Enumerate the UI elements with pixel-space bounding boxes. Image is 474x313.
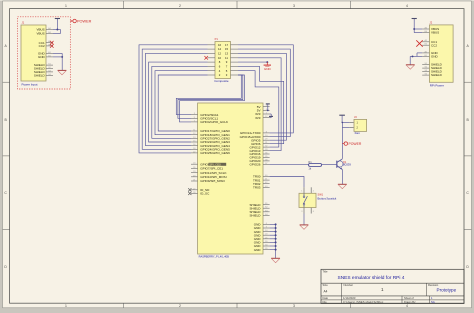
- svg-text:3: 3: [293, 304, 295, 308]
- power flag POWER left: [70, 20, 73, 22]
- connector J2 RPi Power: [429, 25, 453, 82]
- svg-text:12: 12: [218, 52, 222, 56]
- svg-text:Power Input: Power Input: [22, 83, 38, 87]
- wire fan pins: [342, 121, 349, 123]
- svg-text:POWER: POWER: [77, 20, 92, 24]
- svg-text:RPi Power: RPi Power: [430, 83, 444, 87]
- svg-text:File: File: [323, 300, 328, 304]
- svg-text:SHIELD: SHIELD: [34, 74, 46, 78]
- svg-text:Composite: Composite: [214, 79, 229, 83]
- wire: [176, 75, 241, 115]
- IC U1 left pins: [191, 114, 198, 116]
- svg-text:4: 4: [406, 304, 408, 308]
- svg-text:GPIO4/GPIO_GCLK: GPIO4/GPIO_GCLK: [200, 120, 228, 124]
- junction VBUS: [56, 29, 58, 31]
- junction 5V: [267, 110, 269, 112]
- power bar +5V RPi: [412, 18, 417, 20]
- svg-text:GND: GND: [431, 55, 439, 59]
- wire: [238, 53, 286, 140]
- svg-text:VBUS: VBUS: [431, 31, 439, 35]
- wire U1 TR00 to SW1: [270, 177, 304, 188]
- power bar +5V input: [55, 18, 60, 20]
- svg-text:P1: P1: [215, 37, 219, 41]
- wire: [238, 45, 293, 133]
- wire VBUS RPi to power bar: [414, 28, 422, 30]
- svg-text:GND: GND: [38, 55, 46, 59]
- svg-text:Prototype: Prototype: [437, 287, 457, 292]
- ground bar port GND: [266, 62, 268, 65]
- svg-text:Sheet of: Sheet of: [404, 296, 414, 300]
- power flag POWER fan: [342, 143, 344, 145]
- wire GND net of P1: [238, 61, 267, 63]
- svg-text:SG: SG: [431, 300, 435, 304]
- wire: [155, 71, 208, 135]
- svg-text:Title: Title: [323, 270, 328, 274]
- svg-text:GPIO26: GPIO26: [249, 163, 260, 167]
- junction GND bus: [275, 234, 277, 236]
- svg-text:1: 1: [381, 287, 384, 292]
- wire: [149, 62, 208, 142]
- svg-text:2: 2: [179, 4, 181, 8]
- compile mask red dashed box: [18, 17, 71, 89]
- zone ticks and labels: [123, 1, 125, 9]
- power bar 3V3: [269, 115, 273, 117]
- junction GND bus: [275, 223, 277, 225]
- svg-text:GPIO9/SPI_MISO: GPIO9/SPI_MISO: [200, 179, 225, 183]
- power bar 5V: [266, 103, 270, 105]
- wire GND RPi: [417, 52, 422, 54]
- junction GND bus: [275, 245, 277, 247]
- svg-text:Number: Number: [344, 283, 354, 287]
- wire: [152, 66, 208, 138]
- title block: [321, 269, 464, 303]
- power bar 5V fan: [339, 114, 345, 116]
- wire Q1 collector to fan: [341, 122, 343, 158]
- svg-text:SNES emulator shield for RPi 4: SNES emulator shield for RPi 4: [338, 275, 405, 281]
- junction GND P1: [266, 61, 268, 63]
- svg-text:TR03: TR03: [253, 185, 261, 189]
- wire 3V3 pair: [270, 114, 272, 118]
- wire: [145, 53, 207, 145]
- connector P1 pins: [208, 44, 216, 46]
- wire SW1 to ground: [303, 214, 305, 225]
- connector J2 pins: [422, 28, 429, 30]
- svg-text:GPIO25/GPIO_GEN6: GPIO25/GPIO_GEN6: [200, 151, 230, 155]
- no connect ID_SC: [188, 192, 191, 195]
- junction fan: [342, 122, 344, 124]
- svg-text:RASPBERRY_PI_40_40B: RASPBERRY_PI_40_40B: [199, 255, 230, 259]
- svg-text:Date: Date: [323, 296, 329, 300]
- wire GND bus: [270, 223, 276, 225]
- no connect CC1: [50, 41, 54, 45]
- svg-text:VBUS: VBUS: [37, 32, 45, 36]
- connector J1 Power Input: [21, 25, 46, 81]
- wire: [142, 49, 207, 149]
- wire: [158, 75, 207, 131]
- wire U1 GPIO26 to R1: [270, 163, 309, 165]
- wire: [238, 58, 281, 151]
- ground symbol RPi power: [406, 64, 415, 66]
- ground symbol SW1: [300, 224, 309, 226]
- svg-text:C:\Users\..\SNES shield.SchDoc: C:\Users\..\SNES shield.SchDoc: [343, 300, 384, 304]
- svg-text:1: 1: [65, 304, 67, 308]
- wire R1 to Q1 base: [322, 163, 337, 165]
- svg-text:SHIELD: SHIELD: [249, 214, 261, 218]
- resistor R1: [309, 163, 322, 166]
- ground symbol power input: [58, 69, 67, 71]
- svg-text:1: 1: [65, 4, 67, 8]
- svg-text:A4: A4: [324, 290, 328, 294]
- wire Z route GPIO6: [238, 66, 284, 143]
- svg-text:CC2: CC2: [431, 43, 437, 47]
- svg-text:Button/Joystick: Button/Joystick: [318, 196, 337, 200]
- svg-text:2: 2: [179, 304, 181, 308]
- no connect CC2: [50, 44, 54, 48]
- junction GND bus: [275, 227, 277, 229]
- ground symbol Q1: [338, 183, 347, 185]
- transistor Q1 BC639: [337, 161, 343, 167]
- svg-text:R1: R1: [308, 160, 312, 164]
- junction GND bus: [275, 241, 277, 243]
- svg-text:ID_SC: ID_SC: [200, 192, 210, 196]
- svg-text:GND: GND: [254, 248, 262, 252]
- svg-text:4: 4: [406, 4, 408, 8]
- svg-text:Drawn By:: Drawn By:: [404, 300, 416, 304]
- wire: [238, 49, 290, 137]
- svg-text:POWER: POWER: [349, 142, 362, 146]
- svg-text:3V3: 3V3: [255, 116, 261, 120]
- junction GND bus: [275, 238, 277, 240]
- svg-text:GND: GND: [264, 67, 272, 71]
- wire VBUS to power bar: [53, 29, 61, 31]
- svg-text:13: 13: [225, 52, 229, 56]
- ground symbol U1: [271, 257, 280, 259]
- svg-text:3: 3: [293, 4, 295, 8]
- connector P1 Composite header: [215, 42, 231, 79]
- switch SW1 Button/Joystick: [303, 187, 305, 193]
- wire: [178, 75, 243, 118]
- no connect ID_SD: [188, 188, 191, 191]
- wire GND pair: [53, 52, 62, 54]
- svg-text:SPI_CE0: SPI_CE0: [209, 162, 221, 166]
- wire Z route GPIO12: [238, 71, 279, 147]
- wire Q1 emitter to ground: [341, 170, 343, 185]
- junction VBUS RPi: [413, 28, 415, 30]
- IC U1 RASPBERRY_PI_40_40B: [198, 103, 263, 254]
- junction GND: [61, 56, 63, 58]
- no connect P1 pin 10: [204, 56, 208, 60]
- connector J3 Fan: [354, 119, 367, 131]
- svg-text:CC2: CC2: [39, 44, 45, 48]
- IC U1 right pins: [263, 106, 270, 108]
- no connect CC RPi: [416, 40, 422, 46]
- svg-text:SHIELD: SHIELD: [431, 73, 443, 77]
- wire 5V pair: [267, 107, 269, 111]
- svg-text:Size: Size: [323, 283, 329, 287]
- wire: [139, 45, 208, 153]
- junction GND RPi: [412, 55, 414, 57]
- junction GND bus: [275, 249, 277, 251]
- net label SPI_CE0 highlight: [209, 163, 227, 166]
- junction GND bus: [275, 231, 277, 233]
- wire: [180, 75, 245, 122]
- svg-text:BC639: BC639: [343, 163, 351, 167]
- connector J1 pins: [46, 29, 53, 31]
- svg-text:Fan: Fan: [355, 131, 361, 135]
